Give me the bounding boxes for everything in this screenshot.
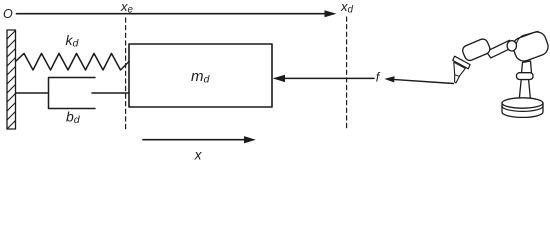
- mass m_d: [129, 44, 272, 107]
- robot forearm end cap: [507, 41, 516, 51]
- arrowhead at f from robot: [384, 76, 394, 82]
- damper b_d rod from wall: [16, 92, 49, 94]
- robot neck between body and collar: [522, 61, 532, 73]
- force f line into mass: [283, 77, 374, 79]
- robot base top ellipse: [502, 98, 543, 108]
- robot nozzle cone and tip: [454, 62, 466, 83]
- svg-text:O: O: [3, 7, 13, 21]
- robot wrist box: [461, 37, 491, 62]
- robot base column: [519, 80, 530, 100]
- displacement x arrow: [143, 139, 246, 141]
- robot body top-face inner line: [516, 31, 539, 48]
- node x_e dashed reference line: [125, 18, 127, 130]
- top axis arrowhead: [325, 10, 337, 17]
- robot base seam line: [502, 106, 543, 111]
- spring k_d: [16, 53, 130, 70]
- ground wall: [7, 30, 16, 129]
- x arrowhead: [244, 136, 256, 143]
- robot forearm: [486, 40, 513, 58]
- damper cylinder: [49, 78, 96, 109]
- robot column collar: [517, 73, 534, 80]
- wire from robot to f arrowhead: [393, 79, 454, 83]
- robot nozzle taper line: [455, 75, 459, 77]
- robot base disk side: [502, 103, 543, 117]
- force f arrowhead at mass: [273, 75, 285, 82]
- wire top axis line O to x_d: [17, 13, 327, 15]
- robot nozzle flange: [453, 56, 470, 69]
- damper piston rod to mass: [92, 92, 129, 94]
- robot body shoulder box: [510, 29, 550, 63]
- svg-text:x: x: [194, 147, 203, 162]
- node x_d dashed reference line: [346, 17, 348, 130]
